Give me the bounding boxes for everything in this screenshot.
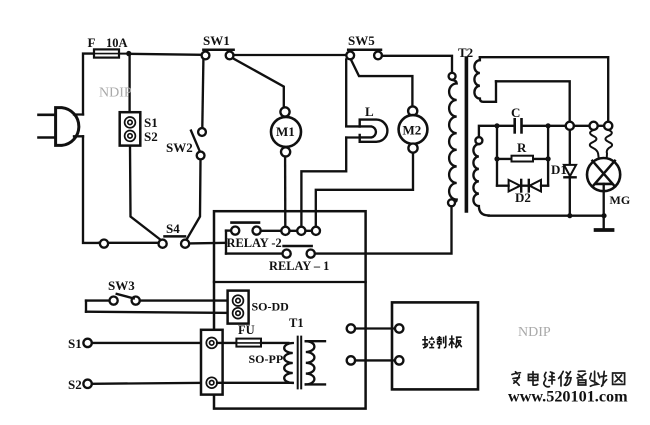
relay RELAY-1 [226,246,315,258]
switch SW2 [191,59,206,159]
junction dot fuse [126,51,131,56]
wire HV node to MG filament [574,125,590,127]
wire SW1 to M1 [233,58,284,107]
wire S1 to SO-PP [92,342,206,344]
junction dot C left [494,123,499,128]
svg-text:D1: D1 [551,162,567,177]
watermark 家电维修资料网 hand strokes [512,371,625,387]
svg-text:SW5: SW5 [348,33,375,48]
wire S2 to SO-PP [92,383,206,384]
T2 HV secondary winding [473,137,488,215]
switch SW5 [346,50,382,60]
junction dot C right [546,123,551,128]
interlock SO-DD [228,291,249,324]
lamp L [346,120,387,142]
wire SW5 to T2 primary top [382,56,452,73]
fuse FU [217,339,288,347]
capacitor C [515,119,522,132]
interlock SO-PP [201,330,223,395]
wire SW5 to lamp [345,59,347,126]
S1 S2 interlock block [120,56,141,146]
divider line in box [214,281,366,283]
ground [596,216,613,230]
wire left rail bottom [83,136,100,243]
svg-text:NDIP: NDIP [518,325,551,340]
svg-text:S1: S1 [144,115,158,130]
svg-text:S4: S4 [166,221,180,236]
connector pair upper [347,324,404,332]
wire SW5 to M2 [351,59,413,106]
svg-text:L: L [365,104,374,119]
T2 filament winding [474,57,496,102]
switch SW3 [86,294,233,313]
connector circle on bottom rail [100,240,108,248]
relay RELAY-2 [226,223,312,254]
switch SW1 [202,50,234,60]
wire lamp down to relay terminal [301,138,346,227]
switch S4 [159,236,190,247]
svg-text:S2: S2 [68,377,82,392]
magnetron MG [587,130,620,216]
transformer T2 core [465,58,469,211]
svg-text:R: R [517,140,527,155]
wire T2 primary to RELAY-1 [315,206,452,253]
wire SW2 down to S4 [186,160,201,241]
wire filament top rail [480,57,608,121]
junction dot MG bottom [601,213,606,218]
terminal S1 [83,339,91,347]
wire top rail to SW1 [129,54,202,55]
svg-text:www.520101.com: www.520101.com [508,388,628,406]
svg-text:SO-PP: SO-PP [249,352,284,366]
control board box [392,302,478,389]
connector circle HV node [566,122,574,130]
diode D1 [564,130,576,216]
transformer T1 [217,337,325,389]
relay box [214,211,366,408]
wire bottom rail with connector [99,242,159,244]
svg-text:SW1: SW1 [203,33,230,48]
svg-text:M2: M2 [403,122,422,137]
wire S4 to relay box [189,242,226,245]
terminal S2 [83,380,91,388]
svg-text:M1: M1 [276,124,295,139]
svg-text:SW3: SW3 [108,278,135,293]
connector circle MG filament left [590,122,598,130]
connector pair lower [347,356,404,364]
svg-text:T1: T1 [289,316,304,330]
svg-text:S2: S2 [144,129,158,144]
svg-text:MG: MG [610,193,631,207]
wire HV bottom rail [489,215,604,217]
svg-text:SO-DD: SO-DD [252,299,290,313]
svg-text:FU: FU [238,323,255,337]
wire M1 down to relay terminal [284,157,287,227]
diode pair D2 [497,180,548,192]
svg-text:RELAY – 1: RELAY – 1 [269,259,329,273]
label control board (控制板) hand strokes [422,335,462,348]
junction dot D1 bottom [567,213,572,218]
svg-text:NDIP: NDIP [99,86,132,101]
relay terminal circles [281,227,320,235]
plug [39,108,84,146]
svg-text:SW2: SW2 [166,140,193,155]
T2 primary winding [448,73,457,207]
wire filament second rail [496,81,570,121]
svg-text:C: C [511,105,520,120]
wire HV line with capacitor [479,126,514,137]
wire M2 down to relay terminal [316,153,413,227]
motor M2 [399,106,428,152]
svg-text:RELAY -2: RELAY -2 [227,236,282,250]
svg-text:S1: S1 [68,336,82,351]
wire between filament terminals [598,125,604,127]
connector circle MG filament right [604,122,612,130]
svg-text:D2: D2 [515,190,531,205]
svg-text:F: F [88,35,96,50]
resistor R network [494,128,550,185]
svg-text:T2: T2 [458,45,473,60]
motor M1 [271,107,301,156]
wire SW1 to SW5 [234,54,347,56]
wire left rail top [83,54,94,115]
wire S1S2 down to S4 [130,146,162,241]
fuse F 10A [94,49,129,57]
svg-text:10A: 10A [106,36,128,50]
